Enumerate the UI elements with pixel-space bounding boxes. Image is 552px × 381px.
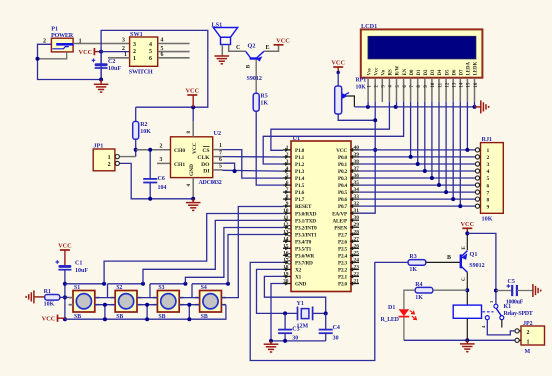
svg-text:RP1: RP1 xyxy=(356,78,367,84)
pin 29 stub xyxy=(351,226,359,228)
wire LCD EN pin6 from U1 P1.2 xyxy=(263,102,403,164)
resistor R4 1K xyxy=(415,287,433,293)
wire LCD Vss pin1 drop to rail xyxy=(367,102,369,107)
LCD pin 11 stub xyxy=(438,78,440,102)
relay contact arm + dashed link xyxy=(483,311,494,313)
wire P3.7 (pin17) detour to R3 xyxy=(250,262,408,360)
pin 2 stub xyxy=(283,156,291,158)
wire LS1 left leg to ground xyxy=(221,45,223,56)
resistor network RJ1 10K xyxy=(481,143,504,214)
svg-text:Vo: Vo xyxy=(381,69,386,75)
svg-text:14: 14 xyxy=(283,236,289,242)
svg-text:S9012: S9012 xyxy=(247,76,262,82)
svg-text:36: 36 xyxy=(354,173,360,179)
svg-text:P3.6/WR: P3.6/WR xyxy=(295,253,314,259)
wire D1 cathode down to relay ground rail xyxy=(403,318,405,341)
svg-text:P2.5: P2.5 xyxy=(338,246,348,252)
svg-text:3: 3 xyxy=(133,42,136,48)
svg-text:EA/VP: EA/VP xyxy=(332,211,348,217)
svg-text:10uF: 10uF xyxy=(108,66,121,72)
pin 5 stub xyxy=(283,177,291,179)
svg-text:31: 31 xyxy=(354,208,360,214)
wire C1 bottom vertical through reset node to VCC rail xyxy=(64,270,66,320)
pin 1 stub xyxy=(283,149,291,151)
pin 36 stub xyxy=(351,177,359,179)
svg-text:P3.0/RXD: P3.0/RXD xyxy=(295,211,317,217)
capacitor C2 10uF xyxy=(100,52,102,64)
svg-text:D6: D6 xyxy=(452,69,457,76)
svg-text:ADC0832: ADC0832 xyxy=(199,180,222,186)
svg-text:3: 3 xyxy=(122,38,125,44)
pin 19 stub xyxy=(283,275,291,277)
svg-text:B: B xyxy=(246,64,252,68)
svg-text:5: 5 xyxy=(149,49,152,55)
svg-text:15: 15 xyxy=(283,243,289,249)
wire U2 CLK pin7 to U1 P1.1 xyxy=(213,156,223,158)
wire RP1 wiper to LCD ground rail xyxy=(348,96,354,107)
svg-text:2: 2 xyxy=(133,49,136,55)
JP2 pin circles xyxy=(515,330,521,332)
svg-text:P1.1: P1.1 xyxy=(295,155,305,161)
svg-text:P0.2: P0.2 xyxy=(338,169,348,175)
pin 23 stub xyxy=(351,268,359,270)
svg-text:1K: 1K xyxy=(415,295,423,301)
svg-text:P0.7: P0.7 xyxy=(338,204,348,210)
pin 33 stub xyxy=(351,198,359,200)
svg-text:12: 12 xyxy=(445,82,450,87)
svg-text:8: 8 xyxy=(286,194,289,200)
svg-text:CLK: CLK xyxy=(197,155,210,161)
ground below LS1 xyxy=(215,56,230,64)
relay K1 coil xyxy=(453,305,481,318)
svg-text:S1: S1 xyxy=(74,285,80,291)
JP1 pin2 circle + wire to ground run xyxy=(115,163,193,198)
svg-text:10: 10 xyxy=(283,208,289,214)
button common rail xyxy=(65,305,226,320)
svg-text:6: 6 xyxy=(286,180,289,186)
svg-text:P0.5: P0.5 xyxy=(338,190,348,196)
svg-text:Relay-SPDT: Relay-SPDT xyxy=(504,311,533,317)
svg-text:11: 11 xyxy=(283,215,288,221)
svg-text:Vss: Vss xyxy=(367,68,372,75)
wire R5 to U1 P1.5 xyxy=(256,111,283,185)
svg-text:1: 1 xyxy=(133,56,136,62)
RJ1 pin 6 xyxy=(475,184,480,186)
svg-text:7: 7 xyxy=(219,150,222,156)
wire P0.2 row xyxy=(359,170,475,172)
svg-text:X2: X2 xyxy=(295,268,302,274)
svg-text:Vcc: Vcc xyxy=(374,67,379,76)
svg-text:30: 30 xyxy=(354,215,360,221)
svg-text:10: 10 xyxy=(431,82,436,87)
svg-text:1: 1 xyxy=(527,339,530,345)
svg-text:P3.7/RD: P3.7/RD xyxy=(295,260,313,266)
svg-text:C: C xyxy=(236,45,240,51)
svg-text:16: 16 xyxy=(474,82,479,87)
wire P0.5 row xyxy=(359,191,475,193)
wire P1 bottom contact xyxy=(38,52,67,59)
riser S4 to U1 P3.3 xyxy=(228,235,283,284)
RJ1 pin 8 xyxy=(475,198,480,200)
wire Q2 base down to R5 xyxy=(255,60,257,94)
svg-text:R5: R5 xyxy=(260,94,267,100)
svg-text:P2.1: P2.1 xyxy=(338,275,348,281)
capacitor C1 10uF xyxy=(58,265,71,268)
LCD pin 5 stub xyxy=(396,78,398,102)
svg-text:B: B xyxy=(447,255,451,261)
svg-text:2: 2 xyxy=(108,162,111,168)
svg-text:VCC: VCC xyxy=(192,142,198,154)
svg-text:Q2: Q2 xyxy=(248,43,256,50)
svg-text:S2: S2 xyxy=(116,285,122,291)
svg-text:1K: 1K xyxy=(409,267,417,273)
svg-text:30: 30 xyxy=(333,336,339,342)
resistor R3 1K xyxy=(408,260,426,266)
pin 9 stub xyxy=(283,205,291,207)
LCD pin 16 stub xyxy=(474,78,476,102)
svg-text:27: 27 xyxy=(354,236,360,242)
svg-text:RS: RS xyxy=(389,69,394,76)
pin 3 stub xyxy=(283,163,291,165)
svg-text:5: 5 xyxy=(161,46,164,52)
svg-text:R4: R4 xyxy=(415,282,422,288)
riser S3 to U1 P3.2 xyxy=(185,228,283,284)
svg-text:D5: D5 xyxy=(445,69,450,76)
pin 21 stub xyxy=(351,283,359,285)
S4 pin stubs xyxy=(195,297,200,299)
wire P0.0 row xyxy=(359,156,475,158)
relay ground rail to JP2 pin1 xyxy=(404,339,515,341)
svg-text:R/W: R/W xyxy=(396,66,401,76)
svg-text:10K: 10K xyxy=(140,129,151,135)
LCD pin 12 stub xyxy=(445,78,447,102)
RJ1 pin 3 xyxy=(475,163,480,165)
svg-text:11: 11 xyxy=(438,82,443,87)
svg-text:S9012: S9012 xyxy=(469,263,484,269)
svg-text:P0.4: P0.4 xyxy=(338,183,348,189)
relay NO contact xyxy=(500,316,504,320)
svg-text:P0.3: P0.3 xyxy=(338,176,348,182)
relay NC contact xyxy=(485,316,489,320)
wire R4 right to collector node xyxy=(433,289,467,291)
svg-text:CS: CS xyxy=(202,148,209,154)
pin 22 stub xyxy=(351,275,359,277)
svg-text:P1.3: P1.3 xyxy=(295,169,305,175)
svg-text:34: 34 xyxy=(354,187,360,193)
S2 pin stubs xyxy=(111,297,116,299)
svg-text:S3: S3 xyxy=(158,285,164,291)
svg-text:6: 6 xyxy=(487,183,490,189)
pin 10 stub xyxy=(283,212,291,214)
svg-text:1K: 1K xyxy=(260,101,268,107)
wire LCD D7 drop xyxy=(459,102,461,206)
push button S1 SB xyxy=(73,291,95,313)
pin 26 stub xyxy=(351,247,359,249)
ground below C2 xyxy=(100,80,102,85)
svg-text:SB: SB xyxy=(201,314,208,320)
svg-text:21: 21 xyxy=(354,278,360,284)
LCD pin 10 stub xyxy=(431,78,433,102)
svg-text:18: 18 xyxy=(283,264,289,270)
push button S2 SB xyxy=(115,291,137,313)
svg-text:2: 2 xyxy=(160,144,163,150)
svg-text:2: 2 xyxy=(122,46,125,52)
pin 28 stub xyxy=(351,233,359,235)
svg-text:6: 6 xyxy=(161,52,164,58)
IC U1 MCU 8051 xyxy=(291,141,351,292)
wire R1 to reset node xyxy=(60,296,65,298)
svg-text:LEDK: LEDK xyxy=(474,61,479,75)
wire CH1 (U2 pin3) stub xyxy=(157,162,171,164)
svg-text:POWER: POWER xyxy=(51,32,74,39)
svg-text:GND: GND xyxy=(189,164,195,176)
svg-text:24: 24 xyxy=(354,257,360,263)
wire LCD RS pin4 from U1 P1.0 xyxy=(271,102,390,150)
wire LCD D1 drop xyxy=(417,102,419,164)
svg-text:10K: 10K xyxy=(44,301,55,307)
svg-text:LEDA: LEDA xyxy=(467,61,472,75)
U2 VCC pin8 stub + port xyxy=(192,107,194,122)
svg-text:32: 32 xyxy=(354,201,360,207)
pin 7 stub xyxy=(283,191,291,193)
svg-text:14: 14 xyxy=(460,82,465,87)
wire reset node to S1 xyxy=(65,296,69,298)
wire R4 left down to D1 xyxy=(404,290,415,309)
wire LCD D4 drop xyxy=(438,102,440,185)
wire RP1 top to VCC xyxy=(337,73,339,87)
svg-text:U2: U2 xyxy=(214,130,222,137)
svg-text:SWITCH: SWITCH xyxy=(129,69,153,76)
svg-text:JP1: JP1 xyxy=(93,143,103,150)
connector P1 POWER xyxy=(51,38,73,52)
svg-text:6: 6 xyxy=(219,157,222,163)
svg-text:P0.1: P0.1 xyxy=(338,162,348,168)
pin 27 stub xyxy=(351,240,359,242)
svg-text:EN: EN xyxy=(403,68,408,75)
svg-text:D3: D3 xyxy=(431,69,436,76)
svg-text:SB: SB xyxy=(116,314,123,320)
pin 35 stub xyxy=(351,184,359,186)
LCD ground rail xyxy=(354,106,474,108)
svg-text:38: 38 xyxy=(354,159,360,165)
svg-text:P3.3/INT1: P3.3/INT1 xyxy=(295,232,317,238)
svg-text:7: 7 xyxy=(286,187,289,193)
wire RP1 bottom to LCD Vcc drop xyxy=(338,114,375,120)
svg-text:C3: C3 xyxy=(292,327,299,333)
row segments between buttons xyxy=(95,297,115,299)
svg-text:2: 2 xyxy=(286,152,289,158)
wire R2 bottom to CH0 node xyxy=(135,139,137,156)
wire LCD D3 drop xyxy=(431,102,433,178)
svg-text:3: 3 xyxy=(487,162,490,168)
ground at LCD rail (right) xyxy=(475,106,481,108)
pin 18 stub xyxy=(283,268,291,270)
svg-text:9: 9 xyxy=(487,204,490,210)
pin 31 stub xyxy=(351,212,359,214)
svg-text:4: 4 xyxy=(487,169,490,175)
svg-text:8: 8 xyxy=(487,197,490,203)
svg-text:29: 29 xyxy=(354,222,360,228)
svg-text:1: 1 xyxy=(487,148,490,154)
svg-text:P0.6: P0.6 xyxy=(338,197,348,203)
wires SW1 pins 4,5,6 stubs xyxy=(158,43,190,45)
svg-text:Y1: Y1 xyxy=(297,301,304,307)
wire LCD D5 drop xyxy=(445,102,447,192)
wire P0.6 row xyxy=(359,198,475,200)
wire RESET (pin9) down to button upper row xyxy=(221,207,283,298)
IC U2 ADC0832 xyxy=(171,137,213,178)
pin 15 stub xyxy=(283,247,291,249)
riser S1 to U1 P3.0 xyxy=(104,214,283,284)
svg-text:PSEN: PSEN xyxy=(334,225,347,231)
connector JP2 M xyxy=(521,326,545,345)
svg-text:R1: R1 xyxy=(44,289,51,295)
capacitor C4 30 xyxy=(325,313,327,329)
pin 30 stub xyxy=(351,219,359,221)
svg-text:JP2: JP2 xyxy=(523,321,533,327)
pin 25 stub xyxy=(351,254,359,256)
svg-text:P2.3: P2.3 xyxy=(338,260,348,266)
push button S4 SB xyxy=(200,291,222,313)
switch SW1 SWITCH xyxy=(130,37,158,66)
wire Q2 emitter to VCC xyxy=(264,45,279,52)
svg-text:Q1: Q1 xyxy=(470,251,478,258)
wire relay coil bottom to rail xyxy=(466,318,468,340)
wire P1 pin1 to SW1 pin3 xyxy=(73,43,130,45)
svg-text:P1.0: P1.0 xyxy=(295,148,305,154)
svg-text:35: 35 xyxy=(354,180,360,186)
svg-text:ALE/P: ALE/P xyxy=(332,218,348,224)
svg-text:39: 39 xyxy=(354,152,360,158)
wire R3 to Q1 base xyxy=(426,261,460,263)
svg-text:4: 4 xyxy=(286,166,289,172)
svg-text:5: 5 xyxy=(286,173,289,179)
svg-text:RJ1: RJ1 xyxy=(482,136,493,143)
svg-text:33: 33 xyxy=(354,194,360,200)
LCD pin 15 stub xyxy=(466,78,468,102)
riser S2 to U1 P3.1 xyxy=(143,220,283,283)
pin 14 stub xyxy=(283,240,291,242)
svg-text:4: 4 xyxy=(149,42,152,48)
capacitor C6 104 xyxy=(149,150,151,179)
svg-text:1: 1 xyxy=(124,52,127,58)
svg-text:D1: D1 xyxy=(388,305,395,311)
svg-text:C1: C1 xyxy=(75,260,82,266)
pin 34 stub xyxy=(351,191,359,193)
svg-text:P3.2/INT0: P3.2/INT0 xyxy=(295,225,317,231)
LCD pin 13 stub xyxy=(452,78,454,102)
svg-text:P2.4: P2.4 xyxy=(338,253,348,259)
RJ1 pin 2 xyxy=(475,156,480,158)
U2 GND pin4 stub + ground xyxy=(192,178,194,199)
ground left of R1 xyxy=(26,290,34,303)
svg-text:CH0: CH0 xyxy=(174,148,185,154)
svg-text:R_LED: R_LED xyxy=(381,317,400,323)
wire LCD Vcc pin2 drop joining VCC row and EA/VP xyxy=(359,102,375,213)
svg-text:C4: C4 xyxy=(333,325,340,331)
svg-text:P3.5/T1: P3.5/T1 xyxy=(295,246,312,252)
svg-text:40: 40 xyxy=(354,145,360,151)
svg-text:VCC: VCC xyxy=(460,221,474,228)
pin 24 stub xyxy=(351,261,359,263)
lower row drops to rail xyxy=(104,305,106,320)
svg-text:1: 1 xyxy=(108,155,111,161)
capacitor C3 30 xyxy=(284,313,286,329)
wire X2 (U1 pin18) to Y1 left xyxy=(257,269,298,313)
svg-text:SB: SB xyxy=(74,314,81,320)
svg-text:R2: R2 xyxy=(140,122,147,128)
svg-text:VCC: VCC xyxy=(276,37,290,44)
JP1 pin1 circle + wire xyxy=(115,156,136,158)
svg-text:P3.4/T0: P3.4/T0 xyxy=(295,239,312,245)
ground below crystal rail xyxy=(270,341,272,344)
svg-text:1: 1 xyxy=(219,143,222,149)
pin 17 stub xyxy=(283,261,291,263)
svg-text:C: C xyxy=(461,277,467,281)
LCD pin 6 stub xyxy=(403,78,405,102)
wire LCD LEDK pin16 drop to rail xyxy=(474,102,476,107)
wire P1 pin2 loop to ground xyxy=(38,44,102,79)
wire VCC node to relay common contact xyxy=(467,233,496,304)
wire C5 right to ground xyxy=(517,290,533,292)
svg-text:4: 4 xyxy=(161,38,164,44)
pin 13 stub xyxy=(283,233,291,235)
LCD pin 7 stub xyxy=(410,78,412,102)
RJ1 pin 4 xyxy=(475,170,480,172)
svg-text:1: 1 xyxy=(286,145,289,151)
svg-text:D4: D4 xyxy=(438,69,443,76)
svg-text:RESET: RESET xyxy=(295,204,312,210)
svg-text:P1.5: P1.5 xyxy=(295,183,305,189)
wire P0.3 row xyxy=(359,177,475,179)
svg-text:10K: 10K xyxy=(482,215,493,222)
svg-text:19: 19 xyxy=(283,271,289,277)
svg-text:DI: DI xyxy=(203,168,209,174)
wire SW1 pin1 stub xyxy=(108,57,130,59)
LCD pin 9 stub xyxy=(424,78,426,102)
svg-text:C5: C5 xyxy=(508,279,515,285)
svg-text:P2.7: P2.7 xyxy=(338,232,348,238)
svg-text:10uF: 10uF xyxy=(75,268,88,274)
wire LS1 right leg to Q2 collector xyxy=(229,45,246,52)
wire LCD LEDA pin15 drop to VCC row xyxy=(466,102,468,150)
pin 8 stub xyxy=(283,198,291,200)
svg-text:SB: SB xyxy=(158,314,165,320)
svg-text:X1: X1 xyxy=(295,275,302,281)
wire LCD R/W pin5 drop to rail xyxy=(396,102,398,107)
svg-text:E: E xyxy=(266,45,270,51)
VCC row: U1 pin40 to RJ1 pin1 xyxy=(359,149,475,151)
svg-text:VCC: VCC xyxy=(42,316,56,323)
svg-text:2: 2 xyxy=(527,330,530,336)
over-button link lines xyxy=(65,283,104,285)
svg-text:2: 2 xyxy=(487,155,490,161)
resistor R1 10K xyxy=(45,295,60,301)
svg-text:7: 7 xyxy=(487,190,490,196)
svg-text:VCC: VCC xyxy=(336,148,347,154)
svg-text:P1.2: P1.2 xyxy=(295,162,305,168)
LCD pin 14 stub xyxy=(459,78,461,102)
wire power vertical + top distribution to U2 VCC node xyxy=(101,30,208,107)
S3 pin stubs xyxy=(153,297,158,299)
pin 4 stub xyxy=(283,170,291,172)
svg-text:M: M xyxy=(525,349,531,355)
wire LCD D2 drop xyxy=(424,102,426,171)
pin 38 stub xyxy=(351,163,359,165)
svg-text:C2: C2 xyxy=(108,59,115,65)
LCD screen xyxy=(368,36,476,58)
crystal ground rail + U1 GND pin20 xyxy=(271,284,326,341)
